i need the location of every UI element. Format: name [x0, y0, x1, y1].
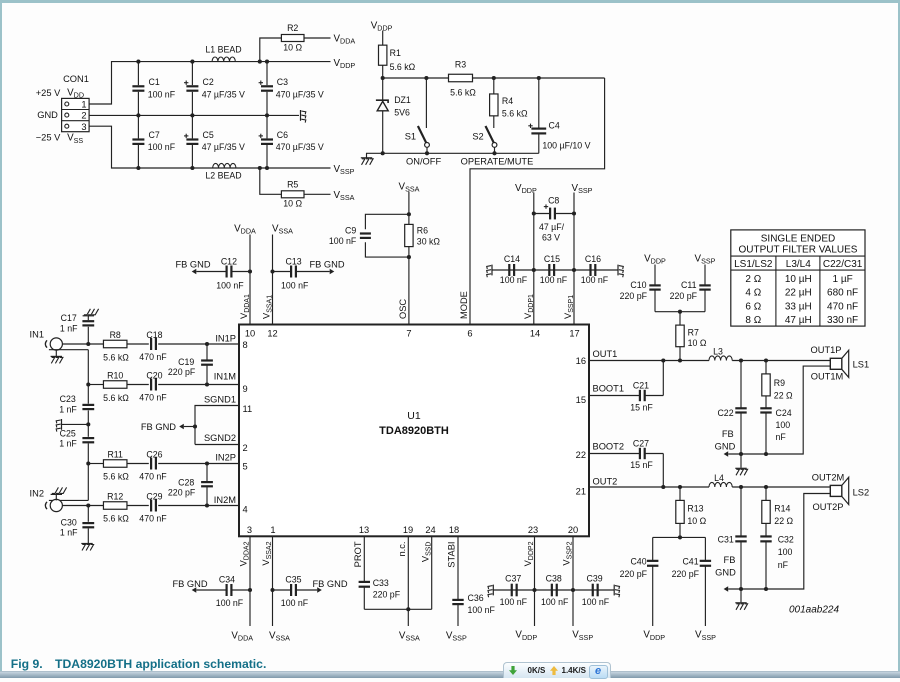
svg-text:100 nF: 100 nF — [281, 281, 309, 291]
svg-text:LS1/LS2: LS1/LS2 — [734, 259, 773, 270]
svg-text:VDDA: VDDA — [234, 224, 256, 236]
svg-text:L3: L3 — [713, 347, 723, 357]
svg-text:C30: C30 — [61, 517, 77, 527]
svg-text:VSSP: VSSP — [572, 183, 593, 195]
capacitor C12 — [196, 257, 250, 291]
wire IN2 sleeve — [49, 499, 88, 501]
label VSSA mid — [272, 224, 293, 236]
svg-text:30 kΩ: 30 kΩ — [417, 237, 441, 247]
pin OUT2 name — [593, 476, 618, 486]
svg-text:5.6 kΩ: 5.6 kΩ — [103, 353, 129, 363]
label VSSP snubber — [695, 254, 716, 266]
svg-text:VDDP: VDDP — [644, 254, 666, 266]
capacitor C8 — [534, 196, 574, 243]
svg-text:47 µH: 47 µH — [785, 315, 812, 326]
svg-text:R11: R11 — [107, 449, 123, 459]
wire C27 to OUT2 — [662, 454, 664, 488]
label OUT2M — [812, 472, 845, 482]
svg-text:S2: S2 — [472, 132, 483, 142]
svg-text:220 pF: 220 pF — [620, 569, 648, 579]
svg-text:10 Ω: 10 Ω — [283, 42, 302, 52]
wire snubber join — [655, 310, 705, 325]
pin 2 number — [243, 443, 248, 453]
svg-text:L2 BEAD: L2 BEAD — [205, 170, 241, 180]
svg-text:SGND2: SGND2 — [204, 433, 236, 443]
ground GND rail — [301, 110, 306, 123]
svg-text:100 nF: 100 nF — [329, 236, 357, 246]
label -25 V — [36, 133, 61, 143]
svg-text:4: 4 — [243, 505, 248, 515]
svg-text:9: 9 — [243, 384, 248, 394]
svg-text:220 pF: 220 pF — [373, 590, 401, 600]
capacitor C2 — [184, 62, 245, 116]
pin 9 number — [243, 384, 248, 394]
ground input bus — [56, 419, 61, 432]
svg-text:C21: C21 — [633, 380, 649, 390]
capacitor C24 — [760, 396, 791, 454]
switch S1 — [405, 78, 430, 153]
wire IN1 to bus — [62, 343, 103, 345]
label VSS — [67, 133, 83, 145]
svg-text:1: 1 — [270, 525, 275, 535]
capacitor C32 — [760, 523, 794, 589]
svg-text:47 µF/35 V: 47 µF/35 V — [202, 142, 245, 152]
svg-text:OUT2: OUT2 — [593, 476, 618, 486]
svg-text:DZ1: DZ1 — [394, 95, 411, 105]
wire C21 to OUT1 — [662, 361, 664, 396]
svg-text:VDDP: VDDP — [371, 20, 393, 32]
resistor R2 — [260, 23, 331, 62]
svg-text:3: 3 — [247, 525, 252, 535]
svg-text:C31: C31 — [718, 534, 734, 544]
wire R10-C20 — [127, 384, 149, 386]
svg-text:FB: FB — [724, 555, 736, 565]
wire pin23 bottom — [532, 536, 536, 626]
ground switch rail — [361, 153, 373, 165]
svg-text:C3: C3 — [277, 77, 288, 87]
svg-text:IN1: IN1 — [30, 330, 44, 340]
svg-text:n.c.: n.c. — [397, 542, 407, 557]
capacitor C41 — [672, 537, 711, 626]
svg-text:C5: C5 — [203, 130, 214, 140]
svg-text:VSSP: VSSP — [446, 630, 467, 642]
label VSSP C41 — [695, 630, 716, 642]
capacitor C25 — [59, 429, 94, 449]
pin STABI name — [447, 542, 457, 568]
wire R12-C29 — [127, 505, 149, 507]
capacitor C38 — [541, 573, 569, 607]
capacitor C22 — [717, 361, 746, 455]
node row junctions — [381, 76, 541, 80]
svg-text:C22: C22 — [717, 408, 733, 418]
svg-text:2: 2 — [81, 111, 86, 121]
svg-text:R7: R7 — [688, 327, 699, 337]
svg-text:100 nF: 100 nF — [148, 89, 176, 99]
svg-text:FB GND: FB GND — [309, 260, 344, 270]
node FB GND sgnd arrow — [141, 422, 184, 432]
capacitor C35 — [273, 574, 318, 608]
speaker LS2 — [830, 477, 869, 504]
svg-text:ON/OFF: ON/OFF — [406, 156, 441, 166]
capacitor C33 — [359, 536, 401, 609]
ground OUT1 return — [735, 454, 747, 475]
svg-text:R2: R2 — [287, 23, 298, 33]
capacitor C13 — [273, 257, 330, 291]
pin 16 number — [576, 356, 586, 366]
svg-text:220 pF: 220 pF — [672, 569, 700, 579]
svg-text:23: 23 — [528, 525, 538, 535]
svg-text:100 nF: 100 nF — [540, 275, 568, 285]
wire C17 stub — [87, 327, 89, 344]
svg-text:100 nF: 100 nF — [581, 275, 609, 285]
label VSSA osc — [399, 181, 420, 193]
wire R8-C18 — [127, 343, 149, 345]
pin 13 number — [359, 525, 369, 535]
wire IN1 sleeve — [49, 349, 88, 351]
wire R11-C26 — [127, 463, 149, 465]
pin 18 number — [449, 525, 459, 535]
resistor R6 — [405, 224, 441, 246]
pin VDDP1 name — [523, 294, 535, 319]
capacitor C3 — [259, 62, 324, 116]
svg-text:2 Ω: 2 Ω — [745, 274, 761, 285]
svg-text:C13: C13 — [286, 257, 302, 267]
pin 23 number — [528, 525, 538, 535]
label VSSA prot — [399, 630, 420, 642]
svg-text:330 nF: 330 nF — [827, 315, 858, 326]
pin 24 number — [425, 525, 435, 535]
svg-text:470 nF: 470 nF — [139, 352, 167, 362]
svg-text:VSSP2: VSSP2 — [562, 541, 574, 565]
pin VSSA2 name — [261, 541, 273, 565]
pin 15 number — [576, 395, 586, 405]
svg-text:10 µH: 10 µH — [785, 274, 812, 285]
svg-text:100 nF: 100 nF — [216, 598, 244, 608]
ground C17 top — [83, 309, 99, 320]
svg-text:100 nF: 100 nF — [500, 597, 528, 607]
svg-text:100: 100 — [778, 547, 793, 557]
svg-text:5.6 kΩ: 5.6 kΩ — [103, 472, 129, 482]
pin 8 number — [243, 340, 248, 350]
svg-text:5.6 kΩ: 5.6 kΩ — [502, 108, 528, 118]
wire pin10 — [248, 235, 252, 325]
pin 11 number — [243, 404, 253, 414]
svg-text:22 Ω: 22 Ω — [774, 516, 793, 526]
svg-text:100 nF: 100 nF — [582, 597, 610, 607]
capacitor C1 — [132, 62, 175, 116]
svg-text:100 nF: 100 nF — [216, 281, 244, 291]
svg-text:14: 14 — [530, 329, 540, 339]
svg-text:C14: C14 — [504, 254, 520, 264]
svg-text:VDDP: VDDP — [515, 630, 537, 642]
pin 21 number — [576, 486, 586, 496]
svg-text:FB GND: FB GND — [175, 260, 210, 270]
svg-text:220 pF: 220 pF — [168, 488, 196, 498]
svg-text:16: 16 — [576, 356, 586, 366]
svg-text:470 nF: 470 nF — [827, 301, 858, 312]
svg-text:C2: C2 — [203, 77, 214, 87]
svg-text:470 nF: 470 nF — [139, 471, 167, 481]
figure caption — [11, 657, 267, 671]
resistor R1 — [379, 31, 416, 79]
svg-text:C41: C41 — [682, 556, 698, 566]
label VDDP rail — [334, 58, 356, 70]
svg-text:C33: C33 — [373, 578, 389, 588]
wire OUT1M return — [728, 366, 830, 456]
pin VDDA1 name — [239, 294, 251, 319]
svg-text:100 nF: 100 nF — [281, 598, 309, 608]
svg-text:1 µF: 1 µF — [832, 274, 852, 285]
svg-text:IN2P: IN2P — [215, 453, 236, 463]
node FB GND OUT1 — [715, 429, 736, 457]
pin IN2P name — [215, 453, 236, 463]
wire C9 loop — [365, 214, 409, 257]
pin BOOT2 name — [593, 441, 625, 451]
svg-text:7: 7 — [406, 329, 411, 339]
svg-text:5.6 kΩ: 5.6 kΩ — [103, 393, 129, 403]
capacitor C34 — [196, 574, 250, 608]
zener DZ1 — [376, 78, 411, 153]
wire C14 row — [492, 269, 618, 271]
label ON/OFF — [406, 156, 441, 166]
wire pin19 nc — [407, 536, 409, 609]
svg-text:MODE: MODE — [459, 291, 469, 319]
svg-text:15 nF: 15 nF — [630, 460, 653, 470]
svg-text:20: 20 — [568, 525, 578, 535]
pin 6 number — [467, 329, 472, 339]
wire pin20 bottom — [571, 536, 575, 626]
resistor R7 — [676, 325, 707, 360]
svg-text:470 nF: 470 nF — [139, 513, 167, 523]
capacitor C4 — [528, 78, 590, 153]
svg-text:VSSP: VSSP — [695, 254, 716, 266]
svg-text:IN1M: IN1M — [214, 371, 236, 381]
pin VSSA1 name — [262, 295, 274, 319]
svg-text:8 Ω: 8 Ω — [745, 315, 761, 326]
pin 5 number — [243, 461, 248, 471]
label VDD — [67, 87, 84, 99]
pin VSSD name — [420, 542, 432, 563]
wire PROT join — [364, 607, 431, 611]
svg-text:6: 6 — [467, 329, 472, 339]
node FB GND OUT2 — [715, 555, 736, 592]
resistor R10 — [88, 371, 129, 404]
svg-text:VDDA2: VDDA2 — [239, 541, 251, 566]
capacitor C21 — [589, 380, 663, 412]
resistor R8 — [103, 330, 129, 363]
resistor R3 — [449, 60, 477, 98]
wire C30 stub — [87, 506, 89, 542]
resistor R12 — [103, 491, 129, 523]
svg-text:FB GND: FB GND — [172, 579, 207, 589]
capacitor C19 — [168, 344, 213, 387]
capacitor C23 — [59, 394, 94, 415]
wire pin12 — [270, 235, 274, 325]
capacitor C39 — [582, 573, 610, 607]
svg-text:OUT2P: OUT2P — [813, 502, 844, 512]
label OUT1P — [811, 345, 842, 355]
wire C37 row — [493, 589, 614, 591]
speed widget pill — [503, 662, 611, 678]
svg-text:SGND1: SGND1 — [204, 394, 236, 404]
connector CON1 — [62, 98, 90, 131]
svg-text:OUT1P: OUT1P — [811, 345, 842, 355]
svg-text:C24: C24 — [776, 408, 792, 418]
svg-text:C4: C4 — [549, 120, 560, 130]
pin BOOT1 name — [593, 384, 625, 394]
wire pin3 bottom — [248, 536, 252, 626]
svg-text:100 µF/10 V: 100 µF/10 V — [542, 140, 590, 150]
node GND rail junctions — [136, 113, 269, 117]
pin 1 number — [270, 525, 275, 535]
svg-text:220 pF: 220 pF — [670, 291, 698, 301]
ground C37 left — [488, 585, 493, 598]
svg-text:IN2: IN2 — [30, 488, 44, 498]
svg-text:C27: C27 — [633, 438, 649, 448]
capacitor C16 — [581, 254, 609, 285]
svg-text:22: 22 — [576, 450, 586, 460]
label VSSP pin20 — [572, 630, 593, 642]
svg-text:C10: C10 — [630, 280, 646, 290]
svg-text:C25: C25 — [60, 429, 76, 439]
ground IN2 — [51, 487, 67, 500]
svg-text:C28: C28 — [178, 478, 194, 488]
svg-text:19: 19 — [403, 525, 413, 535]
svg-text:R3: R3 — [455, 60, 466, 70]
capacitor C18 — [139, 330, 167, 362]
svg-text:C39: C39 — [587, 573, 603, 583]
svg-text:1 nF: 1 nF — [60, 323, 78, 333]
ground IN1 — [51, 350, 63, 364]
svg-text:L1 BEAD: L1 BEAD — [205, 44, 241, 54]
capacitor C17 — [60, 313, 94, 333]
svg-text:12: 12 — [267, 329, 277, 339]
svg-text:OPERATE/MUTE: OPERATE/MUTE — [461, 156, 534, 166]
svg-text:13: 13 — [359, 525, 369, 535]
svg-text:CON1: CON1 — [63, 74, 89, 84]
inductor L3 — [709, 347, 732, 361]
label VSSA bottom2 — [269, 630, 290, 642]
capacitor C6 — [259, 115, 324, 168]
pin PROT name — [353, 541, 363, 567]
wire OUT1 line — [589, 360, 830, 362]
wire SGND loop — [193, 406, 239, 445]
label VDDA bottom — [231, 630, 253, 642]
svg-text:47 µF/: 47 µF/ — [539, 222, 565, 232]
svg-text:C18: C18 — [146, 330, 162, 340]
wire switch rail — [366, 151, 539, 155]
svg-text:nF: nF — [776, 432, 787, 442]
svg-text:4 Ω: 4 Ω — [745, 288, 761, 299]
svg-text:10 Ω: 10 Ω — [283, 198, 302, 208]
pin MODE name — [459, 291, 469, 319]
svg-text:OUT2M: OUT2M — [812, 472, 845, 482]
label VSSA bottom — [334, 190, 355, 202]
svg-text:5.6 kΩ: 5.6 kΩ — [390, 62, 416, 72]
pin SGND2 name — [204, 433, 236, 443]
pin IN2M name — [214, 495, 236, 505]
pin IN1P name — [215, 334, 236, 344]
connector IN1 — [30, 330, 63, 350]
svg-text:VSSA: VSSA — [272, 224, 293, 236]
svg-text:6 Ω: 6 Ω — [745, 301, 761, 312]
svg-text:VDDA: VDDA — [334, 33, 356, 45]
pin 17 number — [569, 329, 579, 339]
wire OUT2 line — [589, 486, 830, 488]
svg-text:100 nF: 100 nF — [541, 597, 569, 607]
svg-text:R9: R9 — [774, 378, 785, 388]
svg-text:R12: R12 — [107, 491, 123, 501]
page frame top — [0, 0, 900, 3]
capacitor C26 — [139, 449, 167, 481]
svg-text:C38: C38 — [546, 573, 562, 583]
svg-text:STABI: STABI — [447, 542, 457, 568]
svg-text:100 nF: 100 nF — [468, 605, 496, 615]
svg-text:5V6: 5V6 — [394, 108, 410, 118]
svg-text:10: 10 — [245, 329, 255, 339]
svg-text:33 µH: 33 µH — [785, 301, 812, 312]
svg-text:PROT: PROT — [353, 541, 363, 567]
svg-text:18: 18 — [449, 525, 459, 535]
svg-text:GND: GND — [715, 568, 736, 578]
svg-text:C12: C12 — [221, 257, 237, 267]
svg-text:GND: GND — [715, 442, 736, 452]
pin IN1M name — [214, 371, 236, 381]
svg-text:1: 1 — [81, 99, 86, 109]
label VDDP top — [371, 20, 393, 32]
node FB GND C35 — [312, 579, 347, 593]
node OSC junctions — [407, 212, 411, 259]
page frame right — [898, 0, 900, 671]
wire input bus — [87, 350, 89, 501]
svg-text:VDDP1: VDDP1 — [523, 294, 535, 319]
pin 12 number — [267, 329, 277, 339]
svg-text:C7: C7 — [149, 130, 160, 140]
svg-text:R8: R8 — [110, 330, 121, 340]
pin 4 number — [243, 505, 248, 515]
svg-text:5: 5 — [243, 461, 248, 471]
node OUT1 junctions — [661, 358, 768, 362]
svg-text:VDDA: VDDA — [231, 630, 253, 642]
svg-text:C34: C34 — [219, 574, 235, 584]
wire FB GND sgnd — [184, 426, 195, 428]
svg-text:220 pF: 220 pF — [168, 367, 196, 377]
capacitor C11 — [670, 265, 711, 312]
svg-text:SINGLE ENDED: SINGLE ENDED — [761, 234, 835, 245]
wire C20 to pin9 — [158, 384, 239, 386]
svg-text:C8: C8 — [548, 196, 559, 206]
ground OUT2 return — [735, 589, 747, 610]
svg-text:1 nF: 1 nF — [59, 405, 77, 415]
svg-text:24: 24 — [425, 525, 435, 535]
pin 22 number — [576, 450, 586, 460]
svg-text:OUT1: OUT1 — [593, 349, 618, 359]
svg-text:R10: R10 — [107, 371, 123, 381]
capacitor C9 — [329, 226, 371, 246]
pin SGND1 name — [204, 394, 236, 404]
wire mode loop — [470, 78, 605, 325]
wire pin3 to VSSP rail — [89, 126, 330, 168]
wire OUT2P return — [728, 494, 830, 592]
inductor L1 — [205, 44, 241, 61]
svg-text:OUT1M: OUT1M — [811, 372, 844, 382]
node VSSP rail junctions — [136, 166, 269, 170]
node input bus junctions — [86, 342, 90, 508]
wire pin24 VSSD — [431, 536, 433, 609]
table output filter values — [731, 230, 865, 326]
label VDDA top — [334, 33, 356, 45]
svg-text:1 nF: 1 nF — [60, 528, 78, 538]
